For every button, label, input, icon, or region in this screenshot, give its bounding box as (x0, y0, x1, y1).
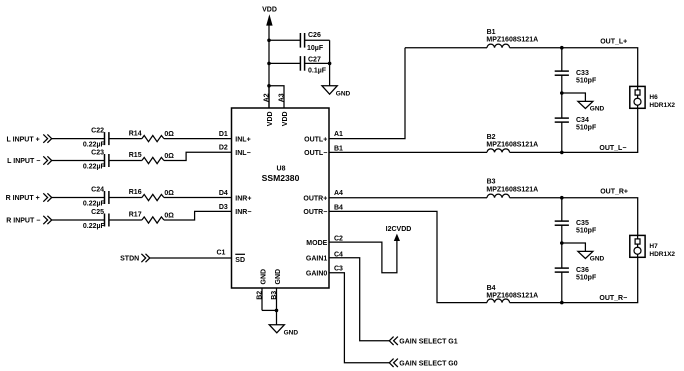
svg-text:MPZ1608S121A: MPZ1608S121A (486, 186, 538, 193)
svg-text:H6: H6 (649, 94, 658, 101)
svg-text:C3: C3 (334, 266, 343, 273)
wire B3 to header H7 (510, 198, 638, 236)
svg-text:SD: SD (235, 257, 245, 264)
svg-text:0.22µF: 0.22µF (83, 163, 106, 170)
pin B2 wire (261, 288, 263, 310)
connector GAIN SELECT G0 (389, 359, 457, 368)
ferrite bead B4 MPZ1608S121A (486, 285, 538, 303)
svg-text:R14: R14 (129, 130, 142, 137)
svg-text:0Ω: 0Ω (164, 190, 174, 197)
wire pin A1 to OUT_L+ rail (329, 48, 405, 139)
junction C33/C34/GND (560, 91, 564, 95)
wire OUT_L+ rail left (405, 47, 487, 49)
svg-text:MPZ1608S121A: MPZ1608S121A (486, 293, 538, 300)
IC U8 SSM2380 (232, 108, 330, 288)
svg-text:GAIN SELECT G1: GAIN SELECT G1 (399, 338, 457, 345)
wire R INPUT+ to C24 (52, 197, 105, 199)
svg-text:0Ω: 0Ω (164, 153, 174, 160)
junction B2/B3 ground (275, 309, 279, 313)
wire pin B4 to OUT_R- rail (329, 211, 487, 302)
junction OUT_L+/C33 (560, 46, 564, 50)
ground (L filter) (562, 93, 605, 113)
resistor R17 0ohm (129, 212, 175, 223)
svg-text:R16: R16 (129, 189, 142, 196)
capacitor C36 510pF (555, 243, 597, 303)
pin A2 wire (268, 86, 270, 108)
junction C27/GND (328, 62, 332, 66)
svg-text:510pF: 510pF (576, 124, 597, 131)
wire R14 to pin D1 (164, 138, 232, 140)
svg-text:C4: C4 (334, 251, 343, 258)
svg-text:0Ω: 0Ω (164, 131, 174, 138)
svg-text:MPZ1608S121A: MPZ1608S121A (486, 142, 538, 149)
svg-text:0Ω: 0Ω (164, 212, 174, 219)
svg-text:C24: C24 (91, 187, 104, 194)
wire C22 to R14 (109, 138, 142, 140)
connector L INPUT + (7, 134, 52, 143)
svg-text:HDR1X2: HDR1X2 (649, 102, 675, 109)
connector L INPUT - (7, 156, 52, 165)
wire pin A4 OUT_R+ rail (329, 197, 487, 199)
svg-text:0.22µF: 0.22µF (83, 223, 106, 230)
pin name SD with overline (235, 254, 245, 263)
svg-text:OUT_L+: OUT_L+ (600, 38, 627, 45)
wire C25 to R17 (109, 219, 142, 221)
junction VDD/A3 branch (267, 84, 271, 88)
svg-text:10µF: 10µF (307, 45, 324, 52)
junction VDD/C26 (267, 39, 271, 43)
svg-text:C35: C35 (576, 220, 589, 227)
svg-text:INL−: INL− (235, 150, 250, 157)
svg-text:R15: R15 (129, 152, 142, 159)
svg-text:B2: B2 (256, 291, 263, 300)
svg-text:GND: GND (260, 269, 267, 285)
wire pin C4 GAIN1 (329, 258, 390, 341)
wire VDD rail vertical (268, 40, 270, 108)
svg-text:B2: B2 (487, 134, 496, 141)
svg-text:GND: GND (590, 256, 605, 263)
svg-text:MODE: MODE (306, 240, 327, 247)
svg-text:HDR1X2: HDR1X2 (649, 251, 675, 258)
svg-text:INL+: INL+ (235, 136, 250, 143)
ground (chip GND pins) (269, 310, 298, 336)
wire STDN to pin C1 (150, 257, 232, 259)
svg-text:INR+: INR+ (235, 195, 251, 202)
svg-text:0.1µF: 0.1µF (308, 67, 327, 74)
svg-text:A1: A1 (334, 131, 343, 138)
svg-text:D1: D1 (219, 131, 228, 138)
svg-text:C22: C22 (91, 128, 104, 135)
svg-text:OUTL+: OUTL+ (304, 136, 327, 143)
svg-text:GND: GND (284, 330, 299, 337)
wire pin B1 OUTL- rail (329, 151, 487, 153)
svg-text:INR−: INR− (235, 209, 251, 216)
svg-text:C26: C26 (308, 32, 321, 39)
svg-text:GAIN SELECT G0: GAIN SELECT G0 (399, 360, 457, 367)
svg-text:MPZ1608S121A: MPZ1608S121A (486, 37, 538, 44)
svg-text:B4: B4 (487, 285, 496, 292)
svg-text:C2: C2 (334, 236, 343, 243)
svg-text:L INPUT −: L INPUT − (7, 158, 40, 165)
header H7 HDR1X2 (630, 235, 676, 257)
junction OUT_R+/C35 (560, 196, 564, 200)
ground (decoupling) (322, 63, 351, 97)
svg-text:GAIN0: GAIN0 (306, 271, 328, 278)
svg-text:B3: B3 (271, 291, 278, 300)
svg-text:D3: D3 (219, 204, 228, 211)
connector R INPUT - (6, 216, 51, 225)
svg-text:GND: GND (590, 106, 605, 113)
svg-text:VDD: VDD (282, 111, 289, 126)
resistor R16 0ohm (129, 189, 175, 200)
junction C35/C36/GND (560, 241, 564, 245)
power flag VDD (262, 7, 277, 41)
svg-text:STDN: STDN (120, 256, 139, 263)
ground (R filter) (562, 243, 605, 263)
capacitor C34 510pF (555, 93, 597, 152)
svg-text:R17: R17 (129, 212, 142, 219)
wire C24 to R16 (109, 197, 142, 199)
ferrite bead B3 MPZ1608S121A (486, 179, 538, 198)
svg-text:C34: C34 (576, 117, 589, 124)
capacitor C24 0.22uF (83, 187, 109, 208)
wire L INPUT- to C23 (52, 160, 105, 162)
svg-text:C27: C27 (308, 57, 321, 64)
svg-text:SSM2380: SSM2380 (262, 173, 300, 183)
wire R INPUT- to C25 (52, 219, 105, 221)
power flag I2CVDD (386, 226, 412, 241)
capacitor C26 10uF (269, 32, 330, 52)
wire R17 to pin D3 with jog (164, 211, 232, 220)
svg-text:C1: C1 (216, 250, 225, 257)
svg-text:C23: C23 (91, 150, 104, 157)
svg-text:C33: C33 (576, 70, 589, 77)
svg-text:R INPUT −: R INPUT − (6, 218, 40, 225)
svg-text:D2: D2 (219, 145, 228, 152)
junction OUT_L-/C34 (560, 151, 564, 155)
svg-text:OUTL−: OUTL− (304, 150, 327, 157)
svg-text:B3: B3 (487, 179, 496, 186)
header H6 HDR1X2 (630, 86, 676, 108)
svg-text:A2: A2 (263, 93, 270, 102)
capacitor C22 0.22uF (83, 128, 109, 149)
wire pin C3 GAIN0 (329, 273, 390, 363)
svg-text:H7: H7 (649, 243, 658, 250)
ferrite bead B1 MPZ1608S121A (486, 29, 538, 48)
svg-text:GND: GND (336, 91, 351, 98)
svg-text:B1: B1 (334, 145, 343, 152)
svg-text:0.22µF: 0.22µF (83, 200, 106, 207)
svg-text:R INPUT +: R INPUT + (6, 195, 40, 202)
resistor R14 0ohm (129, 130, 175, 141)
junction VDD/C27 (267, 62, 271, 66)
wire pin C2 MODE to I2CVDD (329, 240, 397, 273)
svg-text:VDD: VDD (267, 111, 274, 126)
svg-text:OUT_R+: OUT_R+ (600, 188, 628, 195)
capacitor C33 510pF (555, 48, 597, 93)
svg-text:VDD: VDD (262, 7, 277, 14)
svg-text:B1: B1 (487, 29, 496, 36)
svg-text:A3: A3 (278, 93, 285, 102)
wire B4 to header H7 bottom (510, 257, 638, 302)
svg-text:OUT_L−: OUT_L− (599, 145, 626, 152)
capacitor C25 0.22uF (83, 209, 109, 230)
wire B2 to header H6 bottom (510, 108, 638, 152)
pin A3 wire (269, 86, 284, 108)
wire R15 to pin D2 with jog (164, 152, 232, 160)
svg-text:C36: C36 (576, 267, 589, 274)
connector R INPUT + (6, 193, 52, 202)
svg-text:OUTR+: OUTR+ (303, 195, 327, 202)
svg-text:D4: D4 (219, 190, 228, 197)
connector STDN (120, 254, 150, 263)
junction OUT_R-/C36 (560, 301, 564, 305)
wire L INPUT+ to C22 (52, 138, 105, 140)
ferrite bead B2 MPZ1608S121A (486, 134, 538, 152)
wire joining B2 B3 (262, 309, 277, 311)
svg-text:OUTR−: OUTR− (303, 209, 327, 216)
wire R16 to pin D4 (164, 197, 232, 199)
svg-text:GAIN1: GAIN1 (306, 256, 328, 263)
svg-text:510pF: 510pF (576, 78, 597, 85)
resistor R15 0ohm (129, 152, 175, 163)
svg-text:0.22µF: 0.22µF (83, 142, 106, 149)
svg-text:I2CVDD: I2CVDD (386, 226, 412, 233)
svg-text:L INPUT +: L INPUT + (7, 136, 40, 143)
svg-text:510pF: 510pF (576, 228, 597, 235)
wire B1 to header H6 (510, 48, 638, 87)
pin B3 wire (276, 288, 278, 310)
wire C26 to C27 right side (329, 40, 331, 63)
svg-text:OUT_R−: OUT_R− (599, 295, 627, 302)
capacitor C23 0.22uF (83, 150, 109, 171)
capacitor C35 510pF (555, 198, 597, 243)
svg-text:GND: GND (275, 269, 282, 285)
wire C23 to R15 (109, 160, 142, 162)
svg-text:A4: A4 (334, 190, 343, 197)
svg-text:510pF: 510pF (576, 274, 597, 281)
capacitor C27 0.1uF (269, 56, 330, 74)
connector GAIN SELECT G1 (389, 337, 457, 346)
svg-text:B4: B4 (334, 204, 343, 211)
svg-text:C25: C25 (91, 209, 104, 216)
svg-text:U8: U8 (277, 166, 286, 173)
